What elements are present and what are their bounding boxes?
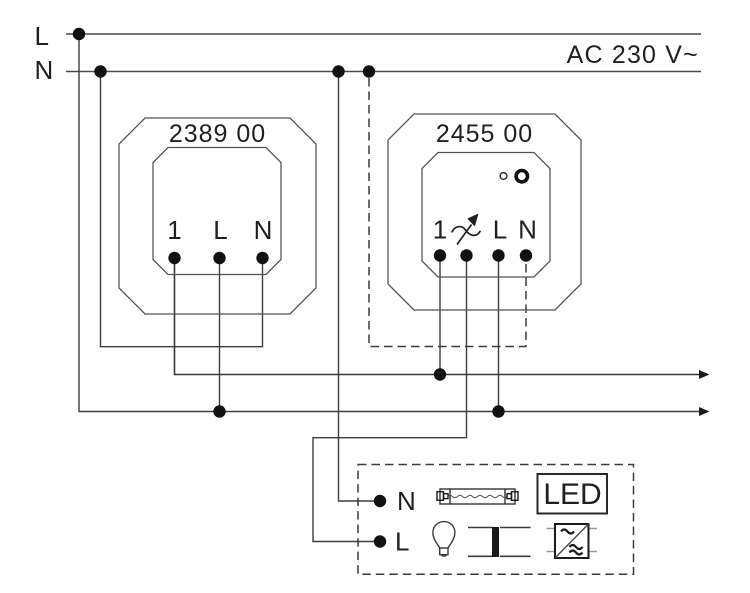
svg-text:2389 00: 2389 00 [169,120,266,148]
svg-text:N: N [518,215,537,245]
svg-text:N: N [397,486,416,516]
svg-text:LED: LED [543,478,601,511]
svg-text:2455 00: 2455 00 [436,120,533,148]
svg-text:N: N [35,55,54,85]
svg-text:L: L [395,527,409,557]
svg-text:L: L [35,21,49,51]
svg-text:L: L [493,215,507,245]
svg-text:AC 230 V~: AC 230 V~ [567,41,699,69]
svg-text:1: 1 [167,215,181,245]
svg-text:1: 1 [433,215,447,245]
svg-text:N: N [254,215,273,245]
svg-text:L: L [213,215,227,245]
